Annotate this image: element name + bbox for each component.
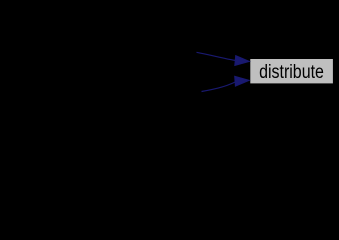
node distribute xyxy=(250,59,333,83)
edge 2 arrowhead xyxy=(235,76,250,86)
svg-text:distribute: distribute xyxy=(259,61,324,83)
edge 2 wire (caller 2 to distribute) xyxy=(202,82,236,92)
edge 1 wire (caller 1 to distribute) xyxy=(197,52,236,60)
edge 1 arrowhead xyxy=(235,56,250,66)
